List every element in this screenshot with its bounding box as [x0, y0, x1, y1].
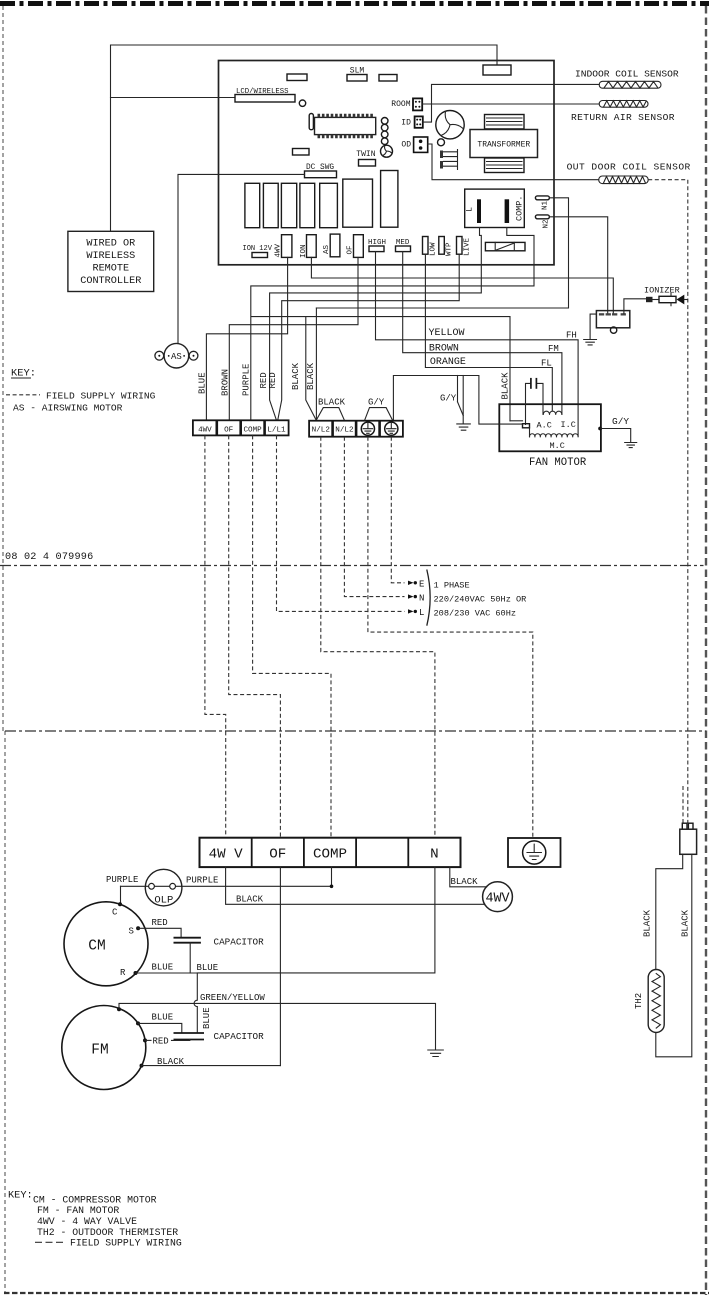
FH label: [566, 331, 577, 341]
field wiring: L/L1 terminal to L phase: [277, 435, 405, 611]
svg-text:208/230 VAC 60Hz: 208/230 VAC 60Hz: [434, 608, 517, 618]
fan motor capacitor: [526, 378, 544, 425]
wire: LOW pin to FL: [425, 254, 552, 410]
indoor/outdoor section separator (dash-dot): [0, 565, 704, 567]
small component left of IC: [309, 114, 313, 130]
svg-text:4WV: 4WV: [198, 426, 212, 434]
ID connector: [401, 116, 423, 127]
svg-text:G/Y: G/Y: [368, 398, 385, 408]
svg-text:E: E: [419, 580, 424, 590]
BLACK label (4WV wire): [236, 894, 264, 904]
wire: ION pin to ionizer connector: [311, 257, 613, 313]
220/240VAC 50Hz OR text: [434, 595, 527, 605]
svg-text:1 PHASE: 1 PHASE: [434, 580, 470, 590]
drawing number 08 02 4 079996: [5, 552, 93, 563]
phase brace: [427, 570, 430, 626]
N phase arrow: [408, 593, 424, 603]
svg-text:4W V: 4W V: [209, 847, 244, 863]
wire: DC SWG to AS motor: [178, 174, 305, 343]
wire: TH2 connector left lead: [656, 854, 683, 969]
svg-text:FIELD SUPPLY WIRING: FIELD SUPPLY WIRING: [46, 390, 156, 401]
L phase arrow: [408, 608, 424, 618]
svg-text:N/L2: N/L2: [335, 427, 354, 435]
svg-text:OF: OF: [224, 426, 234, 434]
outdoor section top border (dash-dot): [5, 730, 706, 732]
outdoor terminal block: [200, 838, 461, 867]
earth terminal symbol 2: [385, 422, 398, 435]
BLACK jumper link over N/L2 terminals: [317, 408, 345, 420]
svg-text:PURPLE: PURPLE: [186, 876, 218, 886]
wire: COMP terminal to OLP (PURPLE): [121, 867, 334, 888]
svg-text:FM: FM: [91, 1043, 108, 1059]
svg-text:BLACK: BLACK: [291, 362, 301, 390]
field wiring: OF terminal down: [229, 435, 281, 838]
svg-text:CM - COMPRESSOR MOTOR: CM - COMPRESSOR MOTOR: [33, 1195, 157, 1206]
svg-text:FIELD SUPPLY WIRING: FIELD SUPPLY WIRING: [70, 1238, 182, 1249]
wire: N terminal to BLUE bus: [197, 867, 435, 973]
field wiring: earth terminal to outdoor earth: [368, 437, 533, 838]
BROWN wire label: [221, 369, 231, 396]
CM capacitor: [174, 937, 265, 948]
AS - AIRSWING MOTOR key line: [13, 402, 123, 413]
IC chip U1: [315, 117, 376, 134]
PCB top connector: [483, 65, 511, 75]
wire: down to CM C terminal: [118, 886, 122, 906]
svg-text:BLACK: BLACK: [157, 1057, 185, 1067]
outdoor earth terminal box: [508, 838, 561, 867]
BLACK label (fan motor lead): [501, 372, 511, 400]
svg-text:BLACK: BLACK: [451, 877, 479, 887]
TH2 thermistor: [634, 970, 664, 1033]
svg-text:4WV: 4WV: [485, 892, 509, 907]
AS pin: [323, 234, 340, 257]
FM fan motor circle: [62, 1006, 146, 1090]
CM compressor motor: [64, 902, 148, 986]
BLUE bus down with hop over G/Y: [194, 973, 197, 1033]
page top border (thick dash-dot): [0, 1, 709, 6]
svg-text:BLUE: BLUE: [197, 963, 219, 973]
svg-text:COMP: COMP: [243, 426, 262, 434]
small circle below fan: [438, 139, 445, 146]
DC SWG connector: [305, 164, 337, 178]
wire: LIVE pin to RED right: [278, 254, 459, 420]
svg-text:CM: CM: [88, 939, 105, 955]
GREEN/YELLOW wire to ground: [117, 993, 443, 1057]
wire: HIGH pin to FH: [376, 252, 579, 437]
wire: L relay to RED left: [270, 228, 482, 420]
RED RED wire labels: [259, 372, 278, 388]
4WV valve: [483, 882, 513, 912]
fan motor box: [499, 404, 601, 469]
fan motor M.C pad: [499, 421, 529, 428]
PURPLE labels: [106, 875, 218, 886]
svg-text:TWIN: TWIN: [356, 150, 375, 159]
indoor terminal block left (4WV OF COMP L/L1): [193, 420, 289, 435]
FL label: [541, 358, 552, 368]
svg-text:BROWN: BROWN: [429, 343, 459, 354]
wire: ROOM connector to return air sensor: [422, 103, 599, 105]
svg-text:C: C: [112, 908, 118, 918]
fan symbol on PCB: [436, 111, 464, 139]
svg-text:N: N: [430, 847, 439, 863]
SLM label and connector: [347, 67, 367, 82]
svg-text:PURPLE: PURPLE: [242, 364, 252, 396]
HIGH pin: [368, 239, 386, 252]
svg-text:G/Y: G/Y: [440, 394, 457, 404]
svg-text:RETURN AIR SENSOR: RETURN AIR SENSOR: [571, 112, 675, 123]
svg-text:BLACK: BLACK: [642, 909, 652, 937]
wire: N1 net (N1 pin to RED right / L/L1): [316, 198, 568, 308]
wire: ionizer unit to ionizer electrode: [624, 299, 646, 314]
WTP pin: [439, 237, 454, 257]
BLUE vertical label: [202, 1007, 212, 1029]
field supply wiring key line: [6, 390, 156, 401]
svg-text:IONIZER: IONIZER: [644, 285, 680, 295]
LOW pin: [423, 237, 438, 257]
svg-text:RED: RED: [153, 1037, 169, 1047]
TH2 key line: [37, 1227, 178, 1238]
pin header connector: [440, 150, 458, 170]
G/Y label near ground: [440, 394, 457, 404]
svg-text:R: R: [120, 968, 126, 978]
1 PHASE text: [434, 580, 470, 590]
connector right of SLM: [379, 75, 397, 82]
svg-text:BLUE: BLUE: [202, 1007, 212, 1029]
svg-text:220/240VAC 50Hz OR: 220/240VAC 50Hz OR: [434, 595, 527, 605]
G/Y jumper link over earth terminals: [365, 408, 393, 420]
OD connector: [401, 137, 427, 152]
svg-text:AS: AS: [171, 352, 182, 362]
FM capacitor: [174, 1031, 265, 1042]
E phase arrow: [408, 580, 424, 590]
earth terminal symbol 1: [361, 422, 374, 435]
wire: N terminal to 4WV valve (BLACK): [450, 867, 487, 887]
CM key line: [33, 1195, 157, 1206]
wire: purple / yellow-box top line: [251, 317, 510, 421]
svg-text:OF: OF: [269, 847, 286, 863]
svg-text:FM - FAN MOTOR: FM - FAN MOTOR: [37, 1205, 119, 1216]
svg-text:N: N: [419, 593, 424, 603]
svg-text:TH2 - OUTDOOR THERMISTER: TH2 - OUTDOOR THERMISTER: [37, 1227, 178, 1238]
svg-text:BLACK: BLACK: [681, 909, 691, 937]
outdoor section bottom border (dashed): [4, 1292, 709, 1294]
ROOM connector: [391, 98, 422, 110]
page left border (dashed): [3, 6, 5, 1293]
svg-text:OD: OD: [401, 141, 411, 150]
svg-text:BROWN: BROWN: [221, 369, 231, 396]
TWIN label and small fan: [356, 145, 392, 159]
svg-text:4WV - 4 WAY VALVE: 4WV - 4 WAY VALVE: [37, 1216, 137, 1227]
MED pin: [396, 239, 411, 252]
svg-text:TRANSFORMER: TRANSFORMER: [477, 141, 530, 150]
svg-text:YELLOW: YELLOW: [429, 328, 465, 339]
4WV key line: [37, 1216, 137, 1227]
OF pin: [347, 235, 364, 258]
svg-text:BLUE: BLUE: [198, 372, 208, 394]
svg-text:S: S: [129, 927, 134, 937]
N2 pin: [535, 215, 550, 229]
BLUE wire label: [198, 372, 208, 394]
field wiring: 4WV terminal down to outdoor: [205, 435, 226, 838]
OLP device: [145, 869, 182, 906]
svg-text:FH: FH: [566, 331, 577, 341]
svg-text:M.C: M.C: [550, 441, 565, 451]
PCB main board outline: [219, 61, 555, 265]
svg-text:ROOM: ROOM: [391, 100, 410, 109]
svg-text:INDOOR COIL SENSOR: INDOOR COIL SENSOR: [575, 69, 679, 80]
relay box L / COMP: [465, 189, 525, 227]
ION pin: [300, 235, 316, 258]
field wiring: N/L2 terminal to outdoor N: [321, 437, 435, 838]
IC pins top: [318, 114, 373, 118]
wire: BLACK left drop to N/L2: [306, 317, 316, 420]
relay bank (5 relays): [245, 183, 338, 227]
wire: S to capacitor (RED): [136, 918, 181, 938]
wire: OF terminal drop (solid below block): [279, 867, 281, 1066]
svg-text:KEY:: KEY:: [8, 1189, 33, 1201]
wire: FM RED to capacitor: [143, 1037, 190, 1047]
G/Y ground symbol (left of fan motor): [457, 424, 471, 430]
svg-text:RED: RED: [152, 918, 168, 928]
wire: OF pin to OF terminal (BROWN): [229, 257, 358, 419]
svg-text:08 02 4 079996: 08 02 4 079996: [5, 552, 93, 563]
svg-text:WIRELESS: WIRELESS: [86, 251, 135, 262]
BLACK labels TH2 leads: [642, 909, 690, 937]
RETURN AIR SENSOR: [571, 101, 675, 123]
field wiring: COMP terminal down: [253, 435, 331, 838]
svg-text:BLACK: BLACK: [501, 372, 511, 400]
svg-text:CAPACITOR: CAPACITOR: [214, 937, 265, 948]
fan motor A.C coil: [537, 411, 576, 430]
svg-text:COMP.: COMP.: [515, 195, 525, 221]
LCD/WIRELESS connector: [235, 88, 306, 106]
indoor terminal block right (N/L2 N/L2 earth earth): [309, 421, 403, 437]
field wiring: outdoor sensor down right side: [648, 180, 688, 823]
208/230 VAC 60Hz text: [434, 608, 517, 618]
svg-text:A.C: A.C: [537, 421, 552, 431]
BLACK BLACK wire labels: [291, 362, 316, 390]
transformer T1: [470, 115, 538, 173]
BLACK label above jumper: [318, 398, 346, 408]
wire: ID connector to indoor coil sensor: [423, 84, 599, 122]
svg-text:N/L2: N/L2: [312, 427, 331, 435]
svg-text:OUT DOOR COIL SENSOR: OUT DOOR COIL SENSOR: [567, 161, 691, 172]
svg-text:WTP: WTP: [446, 242, 454, 256]
G/Y net to earth terminal: [393, 376, 499, 425]
4WV pin: [275, 235, 292, 258]
svg-text:N1: N1: [542, 200, 550, 210]
IONIZER electrode symbol: [644, 285, 688, 305]
INDOOR COIL SENSOR: [575, 69, 679, 89]
wire: N2 pin to ionizer connector: [550, 217, 608, 314]
G/Y label above jumper: [368, 398, 385, 408]
LIVE pin: [457, 237, 472, 257]
svg-text:BLACK: BLACK: [236, 894, 264, 904]
AS airswing motor: [155, 343, 198, 368]
wire: COMP relay to COMP terminal: [251, 228, 534, 420]
wire: TH2 connector right lead: [656, 854, 692, 1057]
svg-text:LIVE: LIVE: [463, 237, 471, 256]
relay symbol with diagonal: [485, 242, 525, 250]
svg-text:BLUE: BLUE: [152, 963, 174, 973]
TH2 connector: [680, 823, 697, 854]
svg-text:FM: FM: [548, 344, 559, 354]
field wiring: earth terminal to E phase: [391, 437, 404, 583]
svg-text:BLACK: BLACK: [318, 398, 346, 408]
ION 12V label and pad: [243, 245, 273, 258]
PCB small rect top-left: [287, 74, 307, 81]
svg-text:FAN MOTOR: FAN MOTOR: [529, 457, 587, 469]
KEY: (indoor): [11, 368, 36, 380]
wire: capacitor to BLUE bus: [189, 943, 191, 973]
svg-text:L/L1: L/L1: [267, 426, 286, 434]
wire: FM BLUE to capacitor: [136, 1012, 182, 1033]
svg-text:CAPACITOR: CAPACITOR: [214, 1031, 265, 1042]
N1 pin: [535, 196, 549, 210]
svg-text:REMOTE: REMOTE: [92, 264, 129, 275]
svg-text:L: L: [465, 207, 475, 212]
YELLOW label: [429, 328, 465, 339]
field wiring: N/L2 terminal to N phase: [344, 437, 404, 597]
BROWN label: [429, 343, 459, 354]
svg-text:OLP: OLP: [154, 895, 173, 907]
svg-text:ID: ID: [401, 119, 411, 128]
ionizer unit ground: [584, 314, 597, 345]
FM key line: [37, 1205, 119, 1216]
connector above DC SWG: [293, 149, 310, 156]
wire: R to BLUE bus: [134, 963, 219, 975]
svg-text:I.C: I.C: [561, 420, 576, 430]
svg-text:RED: RED: [268, 372, 278, 388]
OUT DOOR COIL SENSOR: [567, 161, 691, 183]
field supply wiring key line (outdoor): [35, 1238, 182, 1249]
wire: 4WV terminal to 4WV valve: [226, 867, 485, 904]
svg-text:GREEN/YELLOW: GREEN/YELLOW: [200, 993, 265, 1003]
PURPLE wire label: [242, 364, 252, 396]
svg-text:FL: FL: [541, 358, 552, 368]
svg-text:LOW: LOW: [429, 242, 437, 256]
wire: MED pin to FM: [403, 252, 562, 415]
4 test point circles right of IC: [381, 118, 388, 145]
svg-text:ORANGE: ORANGE: [430, 357, 466, 368]
ORANGE label: [430, 357, 466, 368]
page right border (dashed): [705, 6, 707, 1295]
wire: FM BLACK to OF drop: [140, 1057, 281, 1068]
svg-text:COMP: COMP: [313, 847, 347, 863]
large component rect 2: [381, 171, 398, 228]
wire: branch to LCD/WIRELESS connector: [111, 97, 236, 99]
svg-text:WIRED OR: WIRED OR: [86, 239, 135, 250]
svg-text:BLACK: BLACK: [306, 362, 316, 390]
wire: BLACK right drop to N/L2: [315, 308, 317, 420]
FM label: [548, 344, 559, 354]
svg-text:G/Y: G/Y: [612, 416, 629, 427]
fan motor earth junction and G/Y ground right: [598, 416, 637, 448]
ionizer unit box: [596, 311, 629, 334]
fan motor M.C coil: [529, 428, 578, 451]
svg-text:AS - AIRSWING MOTOR: AS - AIRSWING MOTOR: [13, 402, 123, 413]
wire: OD connector to outdoor coil sensor: [428, 144, 599, 180]
svg-text:TH2: TH2: [634, 993, 644, 1009]
svg-text:BLUE: BLUE: [152, 1012, 174, 1022]
wire: remote controller to PCB top connector: [111, 45, 498, 231]
KEY (outdoor): [8, 1189, 33, 1201]
svg-text:L: L: [419, 608, 424, 618]
wired or wireless remote controller box: [68, 231, 154, 291]
large component rect 1: [343, 179, 373, 227]
connector under TWIN: [359, 160, 376, 167]
svg-text:N2: N2: [543, 219, 551, 228]
svg-text:CONTROLLER: CONTROLLER: [80, 276, 141, 287]
svg-text:PURPLE: PURPLE: [106, 875, 138, 885]
wire: 4WV pin to 4WV terminal (BLUE): [206, 257, 287, 419]
IC pins bottom: [318, 135, 373, 139]
